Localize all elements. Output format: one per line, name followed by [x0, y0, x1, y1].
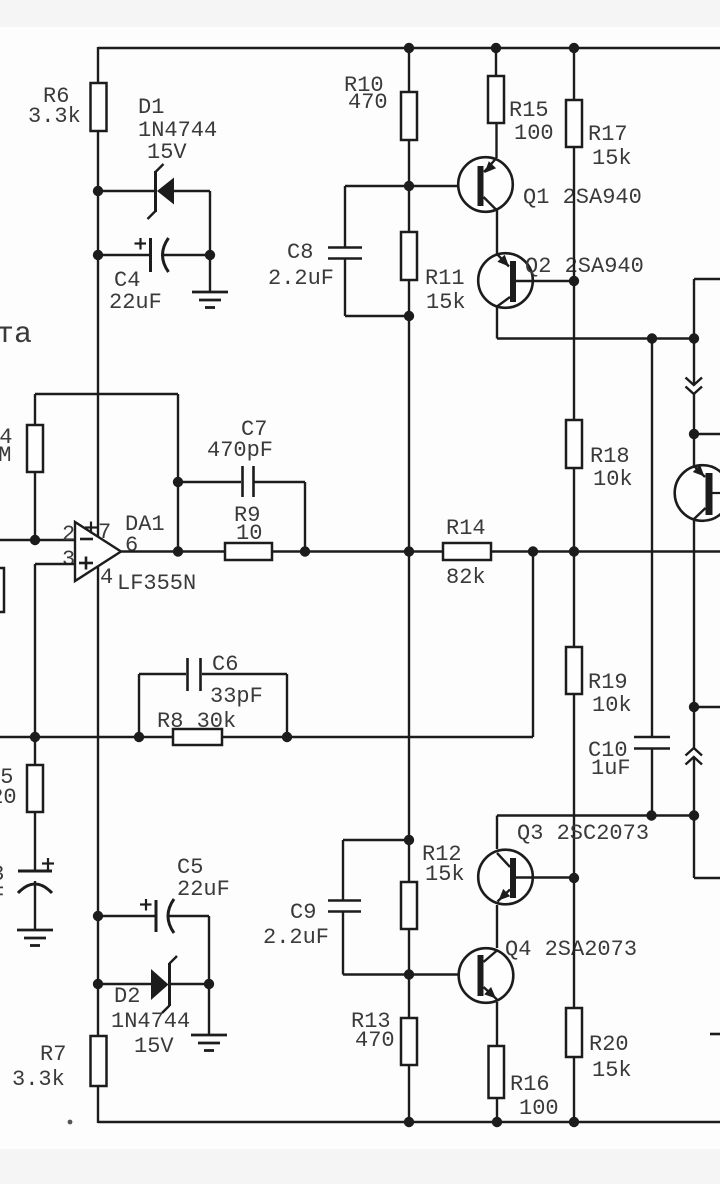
label C5 value	[177, 855, 230, 902]
wire R12 to Q4 base node	[408, 929, 410, 975]
node Q3 collector / right branch	[689, 810, 699, 820]
capacitor C3 (cut label)	[18, 858, 54, 930]
svg-text:15k: 15k	[426, 290, 466, 315]
wire R10 node to R11	[408, 186, 410, 232]
wire R17 to Q2 base node	[573, 147, 575, 281]
svg-text:LF355N: LF355N	[117, 571, 196, 596]
wire center rail middle	[408, 316, 410, 840]
wire R7 to bottom rail	[97, 1086, 99, 1123]
resistor R8 30k	[157, 709, 236, 745]
svg-text:100: 100	[514, 121, 554, 146]
node C6 right branch	[282, 732, 292, 742]
svg-text:470pF: 470pF	[207, 438, 273, 463]
wire R5 top	[34, 737, 36, 765]
label DA1 name	[117, 512, 196, 596]
wire right stub lower	[694, 706, 720, 708]
node Q3 base / R19 / R20	[569, 873, 579, 883]
wire Q2 collector run	[497, 337, 694, 339]
node C4 left junction	[93, 250, 103, 260]
node output junction	[173, 546, 183, 556]
wire Q5 down	[693, 519, 695, 707]
wire right stub mid	[694, 433, 720, 435]
svg-text:15V: 15V	[134, 1034, 174, 1059]
svg-text:10k: 10k	[592, 693, 632, 718]
svg-text:10: 10	[236, 521, 262, 546]
wire Q4 emitter to R16	[496, 1002, 498, 1046]
svg-text:2.2uF: 2.2uF	[268, 266, 334, 291]
svg-text:R19: R19	[588, 670, 628, 695]
svg-text:470: 470	[348, 90, 388, 115]
svg-text:D1: D1	[138, 95, 164, 120]
wire Q2 base to R17 node	[516, 280, 574, 282]
svg-text:3.3k: 3.3k	[28, 104, 81, 129]
svg-text:DA1: DA1	[125, 512, 165, 537]
resistor R5 220 (cut at edge)	[0, 765, 43, 812]
capacitor C5 22uF	[98, 899, 209, 984]
svg-text:R16: R16	[510, 1072, 550, 1097]
node Q2 base / R17 / R18	[569, 276, 579, 286]
transistor Q3 2SC2073	[478, 850, 574, 905]
resistor R17 15k	[566, 100, 632, 171]
resistor R13 470	[351, 1009, 417, 1065]
capacitor C9 2.2uF	[328, 840, 409, 975]
op-amp DA1 LF355N	[75, 522, 121, 582]
resistor R15 100	[488, 76, 554, 146]
zener diode D2 1N4744 15V	[98, 956, 209, 1013]
svg-text:7: 7	[98, 520, 111, 545]
node top rail to R17	[569, 43, 579, 53]
wire R20 top	[573, 878, 575, 1008]
wire R20 to bottom rail	[573, 1057, 575, 1122]
node C4 right junction	[205, 250, 215, 260]
node Q4 base / C9 / R13	[404, 969, 414, 979]
wire rail C5 to D2	[97, 916, 99, 984]
node top rail to R15	[491, 43, 501, 53]
wire R5 to C3	[34, 812, 36, 871]
svg-text:470: 470	[355, 1028, 395, 1053]
svg-text:3.3k: 3.3k	[12, 1067, 65, 1092]
node D2 right junction	[204, 979, 214, 989]
wire R13 to bottom rail	[408, 1065, 410, 1122]
wire R18 to R14 node	[573, 468, 575, 552]
node top rail to R10	[404, 43, 414, 53]
svg-text:D2: D2	[114, 984, 140, 1009]
wire to down-arrows	[693, 339, 695, 386]
svg-text:1N4744: 1N4744	[111, 1009, 190, 1034]
stray dot artifact	[68, 1120, 73, 1125]
resistor R12 15k	[401, 842, 465, 929]
wire feedback top run	[35, 393, 178, 395]
resistor R10 470	[344, 73, 417, 140]
wire R17 top	[573, 48, 575, 100]
resistor R11 15k	[401, 232, 466, 315]
capacitor C6 33pF	[139, 658, 287, 737]
svg-text:R8 30k: R8 30k	[157, 709, 236, 734]
wire R12 top	[408, 840, 410, 882]
svg-text:2.2uF: 2.2uF	[263, 925, 329, 950]
svg-text:1uF: 1uF	[0, 883, 5, 908]
svg-text:15k: 15k	[592, 1058, 632, 1083]
svg-text:220: 220	[0, 785, 17, 810]
wire left rail to op-amp pin7	[97, 255, 99, 537]
text fragment Cyrillic	[0, 318, 32, 352]
capacitor C8 2.2uF	[328, 186, 409, 316]
label C6 value	[210, 652, 263, 709]
wire R4 to input node	[34, 472, 36, 540]
resistor R18 10k	[566, 420, 633, 492]
node C7 branch junction	[173, 477, 183, 487]
resistor R9 10	[225, 503, 272, 560]
wire right stub upper	[694, 279, 720, 339]
svg-text:R20: R20	[589, 1032, 629, 1057]
capacitor C10 1uF	[634, 339, 670, 816]
ground for D1/C4	[192, 292, 228, 308]
wire top rail to R15	[495, 48, 497, 76]
node R10/R11/C8/Q1 junction	[404, 181, 414, 191]
ground for D2/C5	[191, 1035, 227, 1051]
node C10 top branch	[647, 333, 657, 343]
node input/R4 junction	[30, 535, 40, 545]
wire R8 line up to R14 node	[532, 552, 534, 738]
wire R9 to R14	[272, 550, 443, 552]
node C5 left junction	[93, 911, 103, 921]
wire node to Q5	[693, 434, 695, 466]
svg-text:100: 100	[519, 1096, 559, 1121]
wire R6 to D1 node	[97, 131, 99, 191]
svg-text:15k: 15k	[425, 862, 465, 887]
svg-text:Q4 2SA2073: Q4 2SA2073	[505, 937, 637, 962]
node R14/R18-R19 junction	[569, 546, 579, 556]
svg-text:15k: 15k	[592, 146, 632, 171]
label D1 value	[138, 95, 217, 165]
node C9 top / R12	[404, 835, 414, 845]
label Q3	[517, 821, 649, 846]
svg-text:4: 4	[100, 565, 113, 590]
node C10 bottom branch	[646, 810, 656, 820]
label DA1 pins	[62, 520, 138, 590]
wire top positive rail	[98, 47, 720, 49]
svg-text:22uF: 22uF	[177, 877, 230, 902]
wire rail D1 to C4 node	[97, 191, 99, 255]
resistor R16 100	[489, 1046, 559, 1121]
off-page arrows up	[686, 748, 703, 765]
wire right branch bottom	[694, 816, 720, 879]
wire R14 node to R19	[573, 552, 575, 648]
wire R10 to Q1 base node	[408, 140, 410, 186]
label C8 value	[268, 240, 334, 291]
svg-text:C9: C9	[290, 900, 316, 925]
label C3 value fragment	[0, 862, 5, 908]
resistor R6	[28, 83, 107, 131]
svg-text:82k: 82k	[446, 565, 486, 590]
label C10 value	[588, 738, 631, 781]
node bottom rail R13	[404, 1117, 414, 1127]
svg-text:C6: C6	[212, 652, 238, 677]
capacitor C4 22uF	[98, 238, 210, 272]
wire up-arrows to node	[693, 757, 695, 816]
wire Q4 base	[409, 973, 459, 975]
capacitor C7 470pF	[178, 466, 305, 552]
svg-text:C8: C8	[287, 240, 313, 265]
wire R15 to Q1 emitter	[495, 123, 497, 158]
svg-text:R11: R11	[425, 266, 465, 291]
label D2 value	[111, 984, 190, 1059]
wire C4 to ground	[209, 255, 211, 292]
wire Q3 collector up	[496, 816, 498, 850]
svg-text:та: та	[0, 318, 32, 352]
node bottom rail R20	[569, 1117, 579, 1127]
label C4 value	[109, 268, 162, 315]
node pin3/R5/R8 junction	[30, 732, 40, 742]
svg-text:1uF: 1uF	[591, 756, 631, 781]
label C7 value	[207, 417, 273, 463]
wire arrows to node	[693, 394, 695, 434]
resistor R3 fragment at left edge	[0, 568, 4, 612]
resistor R7 3.3k	[12, 1036, 107, 1092]
wire Q3 emitter to Q4 collector	[496, 905, 498, 948]
svg-text:R14: R14	[446, 516, 486, 541]
svg-text:R17: R17	[588, 122, 628, 147]
svg-text:R18: R18	[590, 444, 630, 469]
wire feedback vertical	[177, 394, 179, 552]
wire top rail to R10	[408, 48, 410, 92]
transistor Q2 2SA940	[478, 253, 533, 308]
label C9 value	[263, 900, 329, 950]
wire op-amp pin4 rail segment	[97, 567, 99, 917]
wire left rail top segment	[97, 47, 99, 83]
wire Q2 collector down	[496, 307, 498, 339]
resistor R4 1M (cut at edge)	[0, 425, 43, 472]
wire R8 feedback run	[0, 736, 173, 738]
wire R13 top	[408, 975, 410, 1019]
wire D2 to ground	[208, 984, 210, 1035]
svg-text:33pF: 33pF	[210, 684, 263, 709]
label Q4	[505, 937, 637, 962]
node center rail at output line	[404, 546, 414, 556]
wire R18 from Q2 base node	[573, 281, 575, 420]
wire R14 to right edge	[491, 550, 720, 552]
zener diode D1 1N4744 15V	[98, 164, 210, 255]
node bottom rail R16	[492, 1117, 502, 1127]
wire feedback left down to R4	[34, 394, 36, 425]
svg-text:3: 3	[62, 547, 75, 572]
svg-text:Q3 2SC2073: Q3 2SC2073	[517, 821, 649, 846]
component fragment right edge	[710, 1033, 720, 1036]
node right stub lower	[689, 702, 699, 712]
wire op-amp pin3 to lower net	[35, 564, 75, 737]
wire Q1 base	[345, 185, 459, 187]
wire Q3 collector run	[497, 814, 694, 816]
wire R8 to corner	[222, 736, 533, 738]
svg-text:2: 2	[62, 522, 75, 547]
node C6 left branch	[134, 732, 144, 742]
svg-text:15V: 15V	[147, 140, 187, 165]
node right stub mid	[689, 429, 699, 439]
svg-text:R15: R15	[509, 98, 549, 123]
svg-text:10k: 10k	[593, 467, 633, 492]
wire bottom negative rail	[98, 1121, 720, 1123]
label Q2	[525, 254, 644, 279]
wire to up-arrows	[693, 707, 695, 748]
resistor R19 10k	[566, 647, 632, 718]
transistor Q1 2SA940	[458, 157, 513, 212]
wire R11 to lower node	[408, 280, 410, 316]
node R14/C6-R8 junction	[528, 546, 538, 556]
svg-text:22uF: 22uF	[109, 290, 162, 315]
transistor Q5 (right edge)	[675, 465, 720, 521]
transistor Q4 2SA2073	[459, 948, 514, 1003]
wire Q1 collector to Q2 emitter	[496, 211, 498, 255]
wire R19 to Q3 base node	[573, 694, 575, 878]
node R11/C8 junction	[404, 311, 414, 321]
wire R16 to bottom rail	[496, 1098, 498, 1122]
resistor R20 15k	[566, 1008, 632, 1083]
svg-text:1M: 1M	[0, 443, 11, 468]
wire input signal line	[0, 539, 75, 541]
ground for C3	[17, 930, 53, 946]
node R9/C7 right junction	[300, 546, 310, 556]
resistor R14 82k	[443, 516, 491, 590]
node D2 left junction	[93, 979, 103, 989]
node R6/D1 junction	[93, 186, 103, 196]
label Q1	[523, 185, 642, 210]
svg-text:Q2 2SA940: Q2 2SA940	[525, 254, 644, 279]
off-page arrows down	[686, 378, 703, 395]
node right branch top	[689, 333, 699, 343]
wire op-amp output	[121, 550, 225, 552]
svg-text:Q1 2SA940: Q1 2SA940	[523, 185, 642, 210]
wire rail D2 to R7	[97, 984, 99, 1036]
svg-text:R7: R7	[40, 1042, 66, 1067]
